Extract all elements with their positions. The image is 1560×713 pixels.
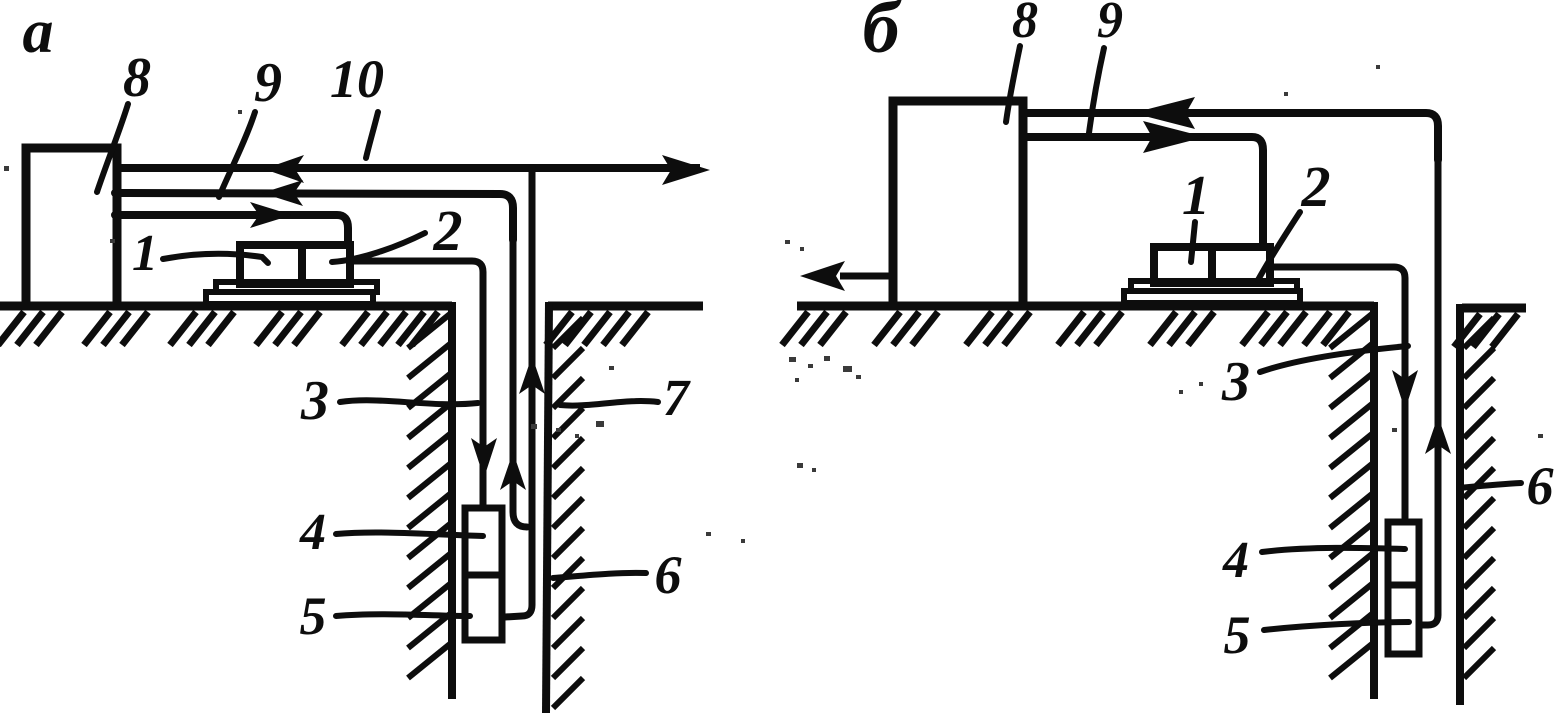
svg-text:9: 9 xyxy=(254,52,282,114)
svg-text:3: 3 xyxy=(1221,351,1250,413)
leader line for 8 (diagram a) xyxy=(97,104,128,192)
vibrator unit boxes 1 and 2 (diagram b) xyxy=(1154,247,1270,283)
arrowhead right on lower line xyxy=(250,202,292,228)
pipe from unit 2 down into well (diagram a) xyxy=(350,261,483,505)
well left wall (diagram b) xyxy=(1370,302,1378,699)
leader line for 3 (diagram a) xyxy=(340,400,478,404)
downhole pump 4 and 5 (diagram b) xyxy=(1388,522,1419,654)
ground hatching right (diagram b) xyxy=(1454,314,1480,347)
svg-text:3: 3 xyxy=(300,370,329,432)
leader line for 3 (diagram b) xyxy=(1260,346,1408,372)
base plate lower (diagram b) xyxy=(1124,291,1300,303)
ground hatching right (diagram a) xyxy=(546,312,572,345)
ground hatching left (diagram b) xyxy=(782,312,808,345)
scan speckles near box 8b xyxy=(785,240,861,472)
well left wall (diagram a) xyxy=(448,302,456,699)
scan speckles diagram b misc xyxy=(706,65,1543,543)
wall hatching left of well b xyxy=(1330,314,1372,348)
arrowhead up on pipe C xyxy=(519,356,545,394)
wire: middle line 9 (diagram a) xyxy=(115,193,513,240)
svg-text:4: 4 xyxy=(1222,532,1249,589)
svg-text:a: a xyxy=(23,0,54,66)
well right wall (diagram a) xyxy=(546,302,549,713)
leader line for 1 (diagram b) xyxy=(1191,222,1195,262)
pump divider 4/5 (diagram a) xyxy=(465,572,502,579)
divider between 1 and 2 (diagram b) xyxy=(1208,247,1216,283)
arrowhead right on line 10 xyxy=(662,155,710,185)
generator box 8 (diagram b) xyxy=(893,101,1023,306)
base plate upper (diagram b) xyxy=(1131,281,1297,291)
ground surface right of well (diagram b) xyxy=(1462,304,1526,313)
wall hatching left of well a xyxy=(408,314,450,348)
leader line for 2 (diagram a) xyxy=(332,233,425,262)
arrowhead left on line 10 xyxy=(264,155,304,183)
svg-text:5: 5 xyxy=(1224,605,1251,665)
leader line for 4 (diagram b) xyxy=(1262,548,1405,552)
svg-text:1: 1 xyxy=(132,225,158,282)
svg-text:4: 4 xyxy=(299,504,326,561)
wire: top signal line 10 (diagram a) xyxy=(115,164,700,172)
leader line for 4 (diagram a) xyxy=(336,532,483,536)
exhaust arrow to the left (diagram b) xyxy=(840,273,893,280)
wire: second line (diagram b) xyxy=(1023,137,1263,244)
wire: lower line to vibrator (diagram a) xyxy=(115,215,348,242)
leader line for 2 (diagram b) xyxy=(1258,212,1300,280)
leader line for 6 (diagram a) xyxy=(553,573,646,578)
arrowhead left exhaust (diagram b) xyxy=(800,261,845,291)
scan speckles near diagram a well xyxy=(4,110,614,438)
svg-text:1: 1 xyxy=(1182,165,1210,227)
leader line for 9 (diagram a) xyxy=(219,112,255,197)
svg-text:2: 2 xyxy=(1301,154,1331,219)
pipe C down to pump (diagram b) xyxy=(1421,160,1438,625)
base plate lower (diagram a) xyxy=(206,292,373,304)
wire: top line (diagram b) xyxy=(1023,113,1438,160)
leader line for 6 (diagram b) xyxy=(1459,483,1521,488)
pipe C from top line down to pump (diagram a) xyxy=(505,168,532,617)
ground hatching left (diagram a) xyxy=(0,312,24,345)
vibrator unit boxes 1 and 2 (diagram a) xyxy=(240,245,350,284)
wall hatching right of well b xyxy=(1464,318,1494,348)
leader line for 10 (diagram a) xyxy=(366,112,378,158)
downhole pump 4 and 5 (diagram a) xyxy=(465,508,502,640)
ground surface right of well (diagram a) xyxy=(548,302,703,311)
arrowhead left on top line b xyxy=(1133,97,1195,129)
arrowhead right on second line b xyxy=(1143,121,1205,153)
svg-text:7: 7 xyxy=(663,370,691,427)
svg-text:9: 9 xyxy=(1097,0,1123,49)
arrowhead left on line 9 xyxy=(262,180,303,206)
generator box 8 (diagram a) xyxy=(26,148,117,306)
base plate upper (diagram a) xyxy=(216,282,377,292)
arrowhead up on pipe B xyxy=(500,452,526,490)
svg-text:8: 8 xyxy=(123,47,151,109)
well right wall (diagram b) xyxy=(1456,304,1464,705)
pipe B from middle line down (diagram a) xyxy=(513,240,527,527)
svg-text:8: 8 xyxy=(1012,0,1038,49)
pipe from unit 2 down into well (diagram b) xyxy=(1272,267,1405,518)
arrowhead down on well pipe (diagram b) xyxy=(1392,370,1418,410)
leader line for 1 (diagram a) xyxy=(163,254,268,263)
leader line for 7 (diagram a) xyxy=(560,401,658,406)
wall hatching right of well a xyxy=(553,318,583,348)
pump divider 4/5 (diagram b) xyxy=(1388,582,1419,589)
leader line for 8 (diagram b) xyxy=(1006,46,1020,122)
svg-text:5: 5 xyxy=(300,586,327,646)
svg-text:2: 2 xyxy=(433,198,463,263)
arrowhead up on pipe C (diagram b) xyxy=(1425,416,1451,454)
svg-text:б: б xyxy=(863,0,903,69)
divider between 1 and 2 (diagram a) xyxy=(298,245,306,284)
leader line for 9 (diagram b) xyxy=(1089,48,1104,133)
leader line for 5 (diagram a) xyxy=(336,614,470,616)
svg-text:10: 10 xyxy=(330,49,384,109)
ground surface left of well (diagram b) xyxy=(797,302,1374,311)
ground surface left of well (diagram a) xyxy=(0,302,452,311)
arrowhead down on well pipe (diagram a) xyxy=(471,438,497,478)
svg-text:6: 6 xyxy=(655,545,682,605)
leader line for 5 (diagram b) xyxy=(1264,622,1409,630)
svg-text:6: 6 xyxy=(1527,456,1554,516)
